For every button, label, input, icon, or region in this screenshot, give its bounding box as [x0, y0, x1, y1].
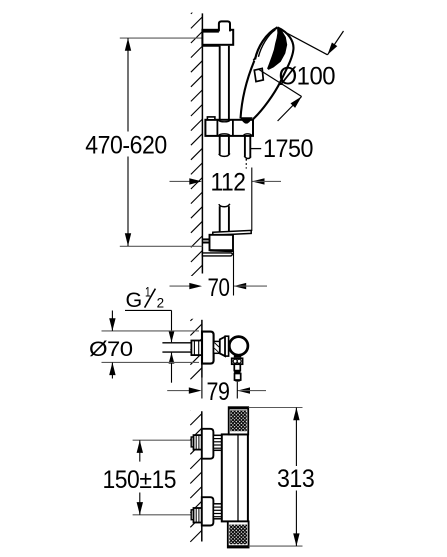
dimension line upper tangent (Ø100)	[276, 27, 328, 55]
hex nut flat line 2	[198, 341, 200, 356]
valve control knob	[229, 337, 248, 356]
svg-text:Ø100: Ø100	[279, 63, 336, 91]
valve wall flange	[202, 332, 214, 364]
wall extension below (79)	[201, 378, 203, 399]
mount wall clamp lower line	[202, 242, 209, 244]
dimension 313 lower shaft	[295, 491, 297, 547]
shower rail lower segment right line	[228, 206, 230, 231]
extension line top (313)	[249, 407, 303, 409]
arrow down (313)	[293, 533, 299, 546]
bottom nut flat 2	[198, 508, 200, 523]
glide holder divider right	[232, 120, 234, 136]
G1/2 leader vertical upper	[171, 310, 173, 342]
bracket arm dark top band	[202, 30, 219, 32]
bottom union ribs	[214, 506, 222, 508]
lever knurled block	[232, 358, 243, 364]
extension line (79)	[236, 382, 238, 399]
top inlet rosette	[202, 429, 214, 459]
arrow up (150±15)	[137, 440, 143, 453]
extension line bottom (313)	[249, 545, 303, 547]
leader dash (1750)	[251, 148, 261, 150]
G1/2 leader underline	[125, 309, 172, 311]
arrow left at lever axis (79)	[237, 387, 250, 393]
glide holder rail bump top	[219, 120, 230, 122]
top union ribs	[214, 438, 222, 440]
dimension 79 right shaft	[237, 390, 266, 392]
arrow down (470-620)	[125, 233, 131, 246]
face-handle step	[253, 57, 255, 60]
rail bottom mount body	[210, 235, 234, 250]
arrow shaft upper (Ø100)	[328, 31, 344, 55]
thermostat body	[222, 434, 248, 521]
extension line top (470-620)	[120, 37, 203, 39]
hand shower face dark chrome band	[267, 28, 287, 70]
arrow at upper tangent (Ø100)	[328, 43, 338, 55]
arrow down (Ø70)	[109, 318, 115, 331]
wire: wall line (middle section)	[201, 320, 203, 378]
lever stick dark band	[234, 371, 240, 374]
rail break curve (lower)	[219, 204, 230, 207]
valve adapter hatch 2	[214, 348, 219, 353]
top nut flat 2	[198, 435, 200, 450]
valve adapter block	[214, 341, 220, 353]
extension line (70)	[233, 251, 235, 296]
extension line bottom (470-620)	[120, 245, 203, 247]
knurl dot 1	[233, 359, 237, 363]
bottom knob dark bottom band	[228, 545, 249, 547]
hand shower face inner line	[258, 30, 275, 57]
rail top cap	[219, 21, 230, 31]
glide holder knob tab	[207, 117, 215, 120]
dimension 313 upper shaft	[295, 408, 297, 467]
top control knob (knurled)	[229, 407, 249, 434]
slide shelf	[213, 230, 251, 235]
hand shower handle left contour	[241, 61, 255, 119]
valve adapter hatch 1	[214, 343, 219, 348]
wire: wall line (lower section)	[201, 411, 203, 541]
mount wall clamp upper line	[202, 238, 209, 240]
hand shower head outer contour	[253, 27, 294, 119]
hand shower spray-mode tab	[254, 68, 263, 81]
arrow down (150±15)	[137, 502, 143, 515]
shower hose left line	[244, 136, 246, 156]
svg-text:Ø70: Ø70	[89, 337, 133, 361]
hose dotted continuation	[245, 159, 247, 169]
arrow up (470-620)	[125, 38, 131, 51]
shower rail below holder left line	[219, 136, 221, 155]
bottom inlet stub	[191, 510, 193, 520]
top inlet hex nut	[194, 435, 202, 450]
fraction slash	[145, 289, 156, 308]
svg-text:470-620: 470-620	[85, 132, 167, 160]
bottom control knob (knurled)	[228, 521, 249, 547]
pipe stub top line	[162, 342, 192, 344]
dimension 112 left shaft	[170, 180, 192, 182]
svg-text:79: 79	[207, 378, 230, 406]
extension line bottom (Ø70)	[102, 361, 200, 363]
svg-text:2: 2	[157, 295, 164, 310]
G1/2 leader vertical lower	[171, 353, 173, 383]
bottom inlet rosette	[202, 497, 214, 525]
svg-text:1: 1	[145, 284, 150, 299]
lever neck	[234, 355, 242, 357]
bottom nut flat 1	[195, 508, 197, 523]
pipe stub hex nut	[191, 341, 202, 356]
svg-text:70: 70	[208, 274, 230, 302]
dimension line lower tangent (Ø100)	[258, 69, 302, 97]
arrow up (313)	[293, 408, 299, 421]
svg-text:112: 112	[211, 168, 246, 196]
arrow right at wall (70)	[189, 283, 202, 289]
dimension 150 upper shaft	[139, 440, 141, 461]
pipe stub bottom line	[162, 351, 192, 353]
bottom union nut	[213, 504, 221, 519]
arrow at lower tangent (Ø100)	[291, 97, 302, 108]
dimension line 470-620 upper shaft	[127, 38, 129, 131]
dimension 150 lower shaft	[139, 493, 141, 515]
thermostat body inner line	[237, 434, 239, 521]
extension line (112)	[251, 168, 253, 232]
extension line top (150±15)	[133, 439, 193, 441]
glide holder rail bump bottom	[219, 134, 230, 136]
hex nut flat line 1	[193, 341, 195, 356]
mount foot plate	[202, 253, 233, 256]
top union nut	[213, 435, 221, 450]
extension line bottom (150±15)	[133, 514, 193, 516]
knurl dot 2	[237, 359, 241, 363]
arrow right at wall (112)	[189, 178, 202, 184]
arrow shaft lower (Ø100)	[278, 97, 302, 122]
arrow right at wall (79)	[189, 387, 202, 393]
dimension Ø70 lower shaft	[111, 362, 113, 378]
dimension 70 left shaft	[170, 285, 192, 287]
dimension 70 right shaft	[234, 285, 268, 287]
lever end dark tip	[234, 380, 241, 382]
hand shower face left rim	[255, 27, 278, 59]
valve body cone	[220, 337, 225, 356]
shower rail below holder right line	[228, 136, 230, 154]
arrow down at pipe top (G1/2)	[169, 331, 175, 342]
top knob dark top band	[229, 407, 249, 409]
svg-text:1750: 1750	[263, 135, 313, 163]
arrow up (Ø70)	[109, 362, 115, 375]
glide holder body	[205, 120, 253, 136]
bracket: rail top mount arm	[202, 30, 233, 45]
arrow up at pipe bottom (G1/2)	[169, 353, 175, 364]
shower hose right line	[249, 136, 251, 157]
top inlet stub	[191, 437, 193, 447]
bracket arm dark bottom band	[202, 45, 219, 47]
hose break curve	[244, 156, 251, 159]
glide holder divider left	[216, 120, 218, 136]
valve ring	[225, 336, 229, 356]
handle grip dark crescent in holder	[240, 117, 253, 123]
svg-text:G: G	[126, 288, 142, 312]
rail break curve (upper)	[219, 153, 230, 156]
top nut flat 1	[195, 435, 197, 450]
extension line top (Ø70)	[102, 330, 200, 332]
shower rail upper segment right line	[228, 46, 230, 121]
svg-text:313: 313	[277, 465, 314, 493]
arrow left at rail axis (70)	[234, 283, 247, 289]
lever stick upper segment	[234, 364, 240, 370]
arrow left at holder axis (112)	[252, 178, 265, 184]
dimension line 470-620 lower shaft	[127, 157, 129, 247]
wire: wall line (upper section)	[201, 13, 203, 273]
dimension 112 right shaft	[252, 180, 281, 182]
shower rail lower segment left line	[219, 206, 221, 231]
bottom inlet hex nut	[194, 508, 202, 523]
glide holder hose bump bottom	[244, 134, 252, 136]
dimension 79 left shaft	[167, 390, 190, 392]
mount foot dark band	[210, 249, 233, 252]
shower rail upper segment left line	[219, 46, 221, 121]
svg-text:150±15: 150±15	[103, 466, 177, 494]
lever stick lower segment	[235, 374, 241, 381]
dimension Ø70 upper shaft	[111, 311, 113, 331]
